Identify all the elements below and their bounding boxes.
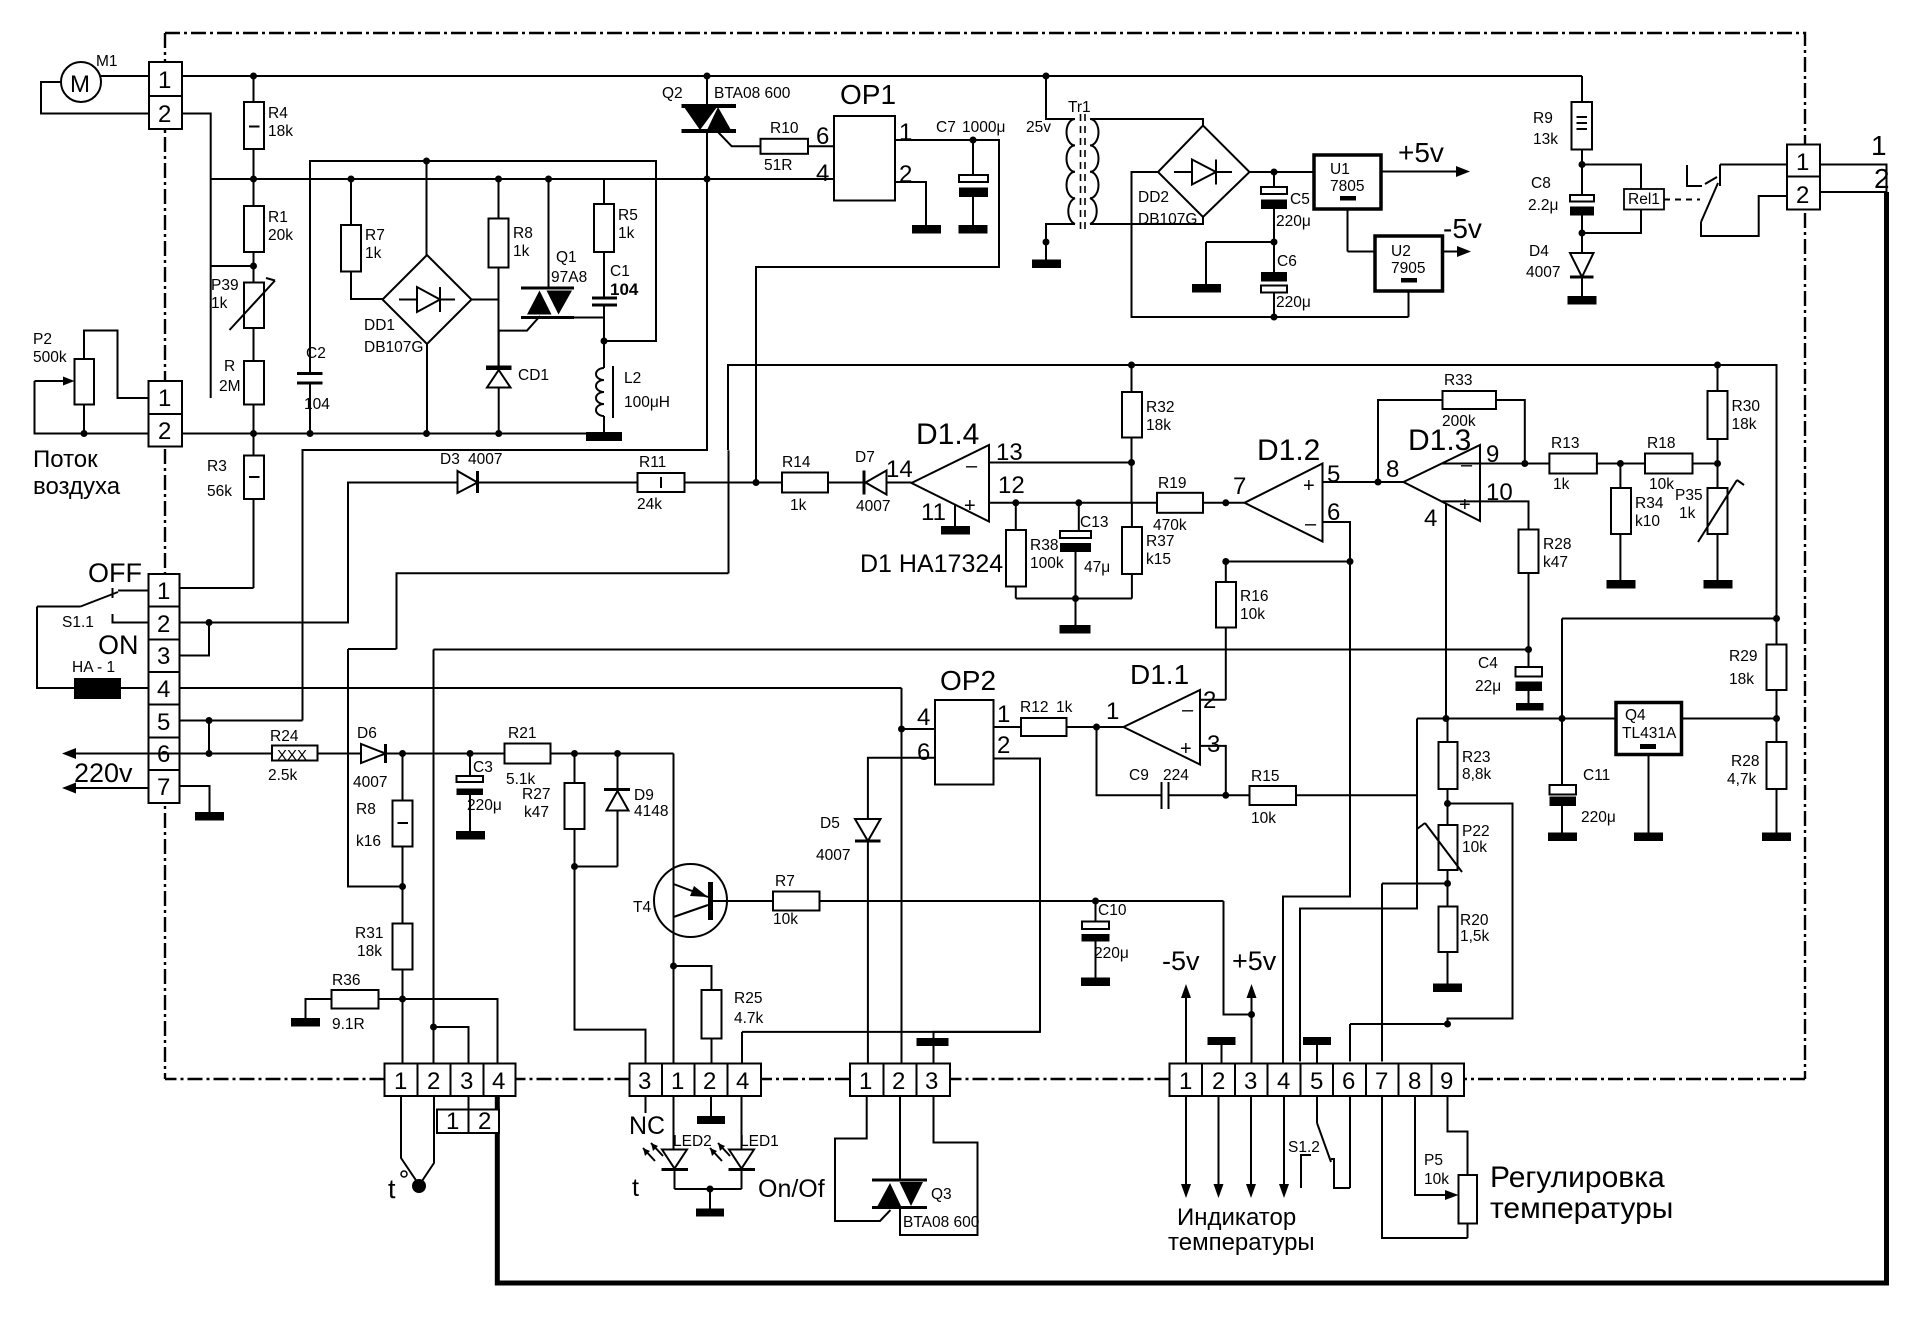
capacitor C10 — [1095, 901, 1097, 922]
wire pin2 — [180, 622, 210, 624]
svg-text:8: 8 — [1386, 456, 1399, 483]
svg-text:56k: 56k — [207, 483, 232, 500]
connector sub 1-2 — [437, 1110, 499, 1134]
svg-text:D4: D4 — [1529, 243, 1549, 260]
svg-text:–: – — [1461, 454, 1473, 476]
svg-text:1,5k: 1,5k — [1460, 928, 1490, 945]
svg-text:18k: 18k — [1729, 671, 1754, 688]
svg-text:6: 6 — [917, 739, 930, 766]
svg-text:–: – — [1305, 513, 1317, 535]
svg-text:2: 2 — [899, 161, 912, 188]
wire pin3 bridge — [180, 623, 210, 656]
svg-text:10k: 10k — [1462, 839, 1487, 856]
wire pin12 — [989, 502, 1157, 504]
svg-text:On/Of: On/Of — [758, 1175, 825, 1203]
wire OP1 pin1 — [756, 140, 999, 483]
svg-text:R11: R11 — [639, 454, 666, 471]
svg-text:OP1: OP1 — [840, 79, 896, 110]
svg-text:1: 1 — [997, 701, 1010, 728]
connector CN-M1 — [149, 62, 182, 129]
svg-text:k16: k16 — [356, 833, 381, 850]
wire y=649.5 long line — [434, 649, 1529, 651]
svg-text:1k: 1k — [1056, 699, 1073, 716]
svg-text:1000μ: 1000μ — [962, 119, 1005, 136]
svg-text:R: R — [224, 358, 235, 375]
svg-text:D3: D3 — [440, 451, 460, 468]
wire pin4 long — [180, 687, 902, 689]
svg-text:2.2μ: 2.2μ — [1528, 197, 1558, 214]
svg-text:2: 2 — [1212, 1068, 1225, 1095]
svg-text:6: 6 — [816, 123, 829, 150]
svg-text:6: 6 — [1342, 1068, 1355, 1095]
resistor R27 — [574, 754, 576, 784]
svg-text:Индикатор: Индикатор — [1177, 1204, 1296, 1231]
svg-text:R9: R9 — [1533, 110, 1553, 127]
svg-text:104: 104 — [304, 396, 330, 413]
wire P22 node to pin7 — [1382, 883, 1448, 885]
resistor R9 — [1581, 76, 1583, 102]
resistor R1 — [244, 206, 264, 252]
svg-text:25v: 25v — [1026, 119, 1051, 136]
wire OP2 pin6 / D5 — [868, 758, 935, 819]
transistor T4 — [673, 754, 675, 1064]
+5v out — [1381, 171, 1466, 173]
svg-text:M1: M1 — [96, 53, 118, 70]
thermocouple probe — [401, 1096, 419, 1184]
svg-text:1: 1 — [446, 1108, 459, 1135]
capacitor C11 — [1561, 619, 1563, 786]
svg-text:R20: R20 — [1460, 912, 1489, 929]
svg-text:R25: R25 — [734, 990, 762, 1007]
svg-text:470k: 470k — [1153, 517, 1187, 534]
svg-text:C7: C7 — [936, 119, 956, 136]
wire supply rail y=365 — [728, 365, 1777, 645]
wire R7 net to +5v node — [1224, 901, 1252, 1015]
resistor R24 — [272, 746, 318, 761]
resistor R23 — [1447, 719, 1449, 743]
connector CN-LED 3,1,2,4 — [630, 1064, 762, 1097]
svg-text:R38: R38 — [1030, 537, 1058, 554]
capacitor C5 — [1273, 172, 1275, 187]
wire OP1 pin2 to ground — [895, 182, 926, 225]
connector CN-sensor 1-4 — [385, 1064, 516, 1097]
svg-text:18k: 18k — [357, 943, 382, 960]
svg-text:C10: C10 — [1098, 902, 1127, 919]
inductor L2 — [603, 341, 605, 368]
resistor R8 k16 — [402, 754, 404, 801]
resistor R7 10k — [711, 900, 774, 902]
svg-text:4: 4 — [816, 160, 829, 187]
wire D9/R27 bottoms to sensor pin2 net — [575, 866, 618, 868]
connector CN-panel 1-9 — [1170, 1064, 1465, 1097]
svg-text:R37: R37 — [1146, 533, 1174, 550]
svg-text:8,8k: 8,8k — [1462, 766, 1492, 783]
svg-text:1k: 1k — [790, 497, 807, 514]
svg-text:C11: C11 — [1583, 767, 1610, 784]
resistor R19 — [1157, 493, 1203, 513]
svg-text:2: 2 — [158, 418, 171, 445]
heavy mains wire — [497, 192, 1886, 1283]
svg-text:BTA08 600: BTA08 600 — [903, 1214, 980, 1231]
svg-text:R32: R32 — [1146, 399, 1174, 416]
svg-text:4007: 4007 — [816, 847, 850, 864]
connector CN-Q3 1-3 — [850, 1064, 950, 1097]
wire D1.1 pin2 to R16 — [1200, 699, 1226, 701]
svg-text:T4: T4 — [633, 899, 651, 916]
resistor R5 — [603, 179, 605, 204]
wire LED commons — [675, 1188, 742, 1190]
svg-text:+: + — [1180, 738, 1192, 760]
op-amp D1.4 — [912, 445, 990, 522]
wire rail2 y=161 C2 top — [310, 161, 656, 374]
wire pin2/3 net up to D3 — [209, 483, 458, 623]
svg-text:7805: 7805 — [1330, 178, 1364, 195]
wire pin5 — [180, 720, 303, 722]
resistor R28 4,7k — [1767, 742, 1787, 789]
svg-text:20k: 20k — [268, 227, 293, 244]
svg-text:+5v: +5v — [1232, 946, 1277, 976]
diode D4 — [1570, 253, 1594, 277]
svg-text:10k: 10k — [1240, 606, 1265, 623]
svg-text:C8: C8 — [1531, 175, 1551, 192]
svg-text:2.5k: 2.5k — [268, 767, 298, 784]
svg-text:R16: R16 — [1240, 588, 1268, 605]
LED2 — [673, 1096, 675, 1150]
svg-text:-5v: -5v — [1162, 946, 1200, 976]
svg-text:D1.4: D1.4 — [916, 418, 979, 451]
ground pin11 D1.4 — [954, 505, 956, 526]
svg-text:220μ: 220μ — [467, 797, 502, 814]
svg-text:+: + — [964, 495, 976, 517]
wire R15 net down to S1.2 loop — [1300, 719, 1417, 1062]
wire R23 node to pin6 net — [1448, 804, 1513, 1025]
svg-text:2: 2 — [1874, 163, 1890, 194]
opto OP2 — [935, 700, 994, 785]
svg-text:k47: k47 — [1543, 554, 1568, 571]
wire pin7 arrow — [66, 787, 149, 789]
svg-text:1: 1 — [1179, 1068, 1192, 1095]
triac Q1 — [548, 179, 550, 288]
wire pin7 loop — [1382, 1096, 1468, 1238]
wire pin10 to R28 — [1441, 501, 1529, 529]
svg-text:D1.2: D1.2 — [1257, 434, 1320, 467]
svg-text:D9: D9 — [634, 787, 654, 804]
TL431 Q4 — [1616, 703, 1682, 755]
svg-text:ON: ON — [98, 630, 139, 660]
wire P39 branch to lower connector pin1 — [211, 265, 254, 267]
triac Q2 — [706, 76, 708, 106]
svg-text:P35: P35 — [1675, 487, 1703, 504]
resistor R8 — [498, 179, 500, 219]
resistor R 2M — [244, 361, 264, 405]
ground under L2 — [586, 432, 622, 441]
svg-text:P39: P39 — [211, 277, 239, 294]
svg-text:1: 1 — [1106, 698, 1119, 725]
svg-text:1k: 1k — [1553, 476, 1570, 493]
wire: motor to connector — [101, 75, 149, 77]
relay switch contact — [1687, 165, 1702, 186]
zener CD1 — [486, 366, 512, 371]
svg-text:R33: R33 — [1444, 372, 1472, 389]
svg-text:D1.1: D1.1 — [1130, 659, 1189, 690]
capacitor C2 — [297, 372, 323, 375]
op-amp D1.3 — [1404, 445, 1481, 521]
svg-text:1: 1 — [394, 1068, 407, 1095]
resistor R29 — [1767, 645, 1787, 691]
resistor R3 — [244, 456, 264, 500]
wire y573 net — [397, 573, 729, 649]
svg-text:воздуха: воздуха — [33, 473, 121, 500]
resistor R20 — [1439, 907, 1458, 953]
svg-text:Rel1: Rel1 — [1628, 191, 1660, 208]
svg-text:7: 7 — [1375, 1068, 1388, 1095]
svg-text:4: 4 — [1424, 505, 1437, 532]
svg-text:OFF: OFF — [88, 558, 142, 588]
wire LED1 pin4 net — [742, 1031, 1040, 1033]
resistor R36 — [332, 990, 379, 1009]
svg-text:2: 2 — [703, 1068, 716, 1095]
regulator U1 — [1314, 155, 1381, 209]
diode D6 — [361, 744, 386, 763]
op-amp D1.2 — [1245, 464, 1323, 542]
svg-text:3: 3 — [638, 1068, 651, 1095]
svg-text:R8: R8 — [356, 801, 376, 818]
connector CN-out right — [1787, 145, 1820, 210]
svg-text:1k: 1k — [1679, 505, 1696, 522]
svg-text:4148: 4148 — [634, 803, 668, 820]
svg-text:4: 4 — [736, 1068, 749, 1095]
svg-text:R30: R30 — [1732, 398, 1761, 415]
resistor R28 k47 — [1519, 530, 1539, 574]
ground above pin2 — [1208, 1037, 1236, 1045]
wire D1.1 pin3 — [1200, 746, 1226, 795]
dash-dot enclosure border — [165, 33, 1805, 1079]
svg-text:4007: 4007 — [1526, 264, 1560, 281]
svg-text:D1.3: D1.3 — [1408, 424, 1471, 457]
svg-text:L2: L2 — [624, 370, 641, 387]
svg-text:1: 1 — [158, 385, 171, 412]
svg-text:R5: R5 — [618, 207, 638, 224]
svg-text:DD2: DD2 — [1138, 189, 1169, 206]
ground C6 left — [1206, 241, 1274, 243]
svg-text:18k: 18k — [1146, 417, 1171, 434]
svg-text:2M: 2M — [219, 378, 241, 395]
svg-text:2: 2 — [892, 1068, 905, 1095]
svg-text:HA - 1: HA - 1 — [72, 659, 115, 676]
svg-text:XXX: XXX — [277, 747, 307, 764]
svg-text:R28: R28 — [1731, 753, 1759, 770]
resistor R37 — [1131, 503, 1133, 527]
svg-text:R18: R18 — [1647, 435, 1675, 452]
resistor R30 — [1717, 365, 1719, 391]
svg-text:4007: 4007 — [468, 451, 502, 468]
svg-text:DD1: DD1 — [364, 317, 395, 334]
resistor R11 — [638, 473, 685, 492]
ground above pin5 — [1303, 1037, 1331, 1045]
wire pin4 jog net (R16/pin6 node down) — [1283, 562, 1350, 1064]
svg-text:R19: R19 — [1158, 475, 1186, 492]
svg-text:1k: 1k — [513, 243, 530, 260]
svg-text:Tr1: Tr1 — [1068, 99, 1091, 116]
resistor R15 — [1250, 786, 1297, 805]
capacitor C3 — [467, 750, 474, 757]
ground above pin3 — [917, 1038, 949, 1046]
svg-text:P5: P5 — [1424, 1152, 1443, 1169]
connector CN-P2 — [149, 381, 183, 447]
svg-text:LED2: LED2 — [673, 1133, 712, 1150]
svg-text:5: 5 — [1327, 461, 1340, 488]
svg-text:1: 1 — [1871, 130, 1887, 161]
resistor R13 — [1549, 454, 1597, 474]
svg-text:10k: 10k — [773, 911, 798, 928]
svg-text:R12: R12 — [1020, 699, 1048, 716]
svg-text:R13: R13 — [1551, 435, 1579, 452]
svg-text:220μ: 220μ — [1276, 294, 1311, 311]
capacitor C6 — [1261, 272, 1287, 282]
svg-text:D6: D6 — [357, 725, 377, 742]
svg-text:2: 2 — [997, 732, 1010, 759]
LED1 — [741, 1096, 743, 1150]
bridge DD2 — [1158, 126, 1250, 218]
svg-text:DB107G: DB107G — [1138, 211, 1197, 228]
svg-text:+: + — [1459, 494, 1471, 516]
svg-text:7905: 7905 — [1391, 260, 1425, 277]
svg-text:18k: 18k — [268, 123, 293, 140]
svg-text:4: 4 — [1277, 1068, 1290, 1095]
resistor R10 — [761, 139, 809, 154]
svg-text:12: 12 — [998, 472, 1025, 499]
wire: pin2 route to rail1 — [182, 114, 211, 399]
op-amp D1.1 — [1124, 690, 1201, 765]
svg-text:51R: 51R — [764, 157, 792, 174]
svg-text:3: 3 — [157, 643, 170, 670]
svg-text:4.7k: 4.7k — [734, 1010, 764, 1027]
svg-text:C9: C9 — [1129, 767, 1149, 784]
svg-text:C4: C4 — [1478, 655, 1498, 672]
svg-text:t: t — [632, 1174, 639, 1202]
wire rail1 y=179 — [211, 178, 834, 180]
svg-text:5: 5 — [1310, 1068, 1323, 1095]
svg-text:NC: NC — [629, 1112, 665, 1140]
svg-text:1k: 1k — [211, 295, 228, 312]
wire R4 — [253, 76, 255, 102]
svg-text:7: 7 — [1233, 473, 1246, 500]
svg-text:C6: C6 — [1277, 253, 1297, 270]
capacitor C13 — [1078, 503, 1080, 531]
ground pin2 LED conn — [710, 1096, 712, 1116]
opto OP1 — [834, 116, 895, 201]
svg-text:4007: 4007 — [353, 774, 387, 791]
svg-text:C13: C13 — [1080, 514, 1108, 531]
svg-text:U1: U1 — [1330, 161, 1350, 178]
svg-text:R21: R21 — [508, 725, 536, 742]
svg-text:R23: R23 — [1462, 749, 1490, 766]
svg-text:C3: C3 — [473, 759, 493, 776]
resistor R38 — [1015, 503, 1017, 530]
svg-text:9: 9 — [1440, 1068, 1453, 1095]
triac Q3 — [835, 1096, 891, 1221]
svg-text:47μ: 47μ — [1084, 559, 1110, 576]
svg-text:2: 2 — [1796, 182, 1809, 209]
svg-text:4: 4 — [157, 676, 170, 703]
svg-text:R7: R7 — [775, 873, 795, 890]
svg-text:22μ: 22μ — [1475, 678, 1501, 695]
svg-text:18k: 18k — [1732, 416, 1757, 433]
svg-text:4: 4 — [917, 704, 930, 731]
svg-text:R34: R34 — [1635, 495, 1664, 512]
wire pin13 — [989, 462, 1132, 464]
svg-text:4: 4 — [492, 1068, 505, 1095]
resistor R18 — [1645, 454, 1693, 474]
svg-text:1: 1 — [899, 119, 912, 146]
svg-text:R24: R24 — [270, 728, 299, 745]
wire pin6 net — [1323, 522, 1351, 562]
svg-text:10k: 10k — [1649, 476, 1674, 493]
svg-text:R4: R4 — [268, 105, 288, 122]
svg-text:10k: 10k — [1424, 1171, 1449, 1188]
svg-text:TL431A: TL431A — [1622, 725, 1677, 742]
capacitor C9 loop — [1097, 727, 1162, 795]
svg-text:24k: 24k — [637, 496, 662, 513]
resistor R14 — [782, 473, 828, 493]
svg-text:1k: 1k — [618, 225, 635, 242]
svg-text:–: – — [966, 455, 978, 477]
diode D9 — [617, 754, 619, 790]
wire OP2 pin2 — [934, 759, 1041, 1039]
svg-text:2: 2 — [158, 101, 171, 128]
svg-text:M: M — [70, 71, 90, 98]
resistor R25 — [670, 963, 677, 970]
svg-text:Q3: Q3 — [931, 1186, 952, 1203]
wire pin6 — [149, 753, 273, 755]
svg-text:1: 1 — [859, 1068, 872, 1095]
svg-text:7: 7 — [157, 774, 170, 801]
svg-text:3: 3 — [925, 1068, 938, 1095]
svg-text:104: 104 — [610, 280, 639, 299]
svg-text:1: 1 — [157, 578, 170, 605]
svg-text:D1 HA17324: D1 HA17324 — [860, 550, 1003, 578]
resistor R33 loop — [1378, 400, 1443, 482]
svg-text:Q1: Q1 — [556, 249, 577, 266]
svg-text:2: 2 — [478, 1108, 491, 1135]
pot P35 — [1717, 464, 1719, 489]
svg-text:1: 1 — [158, 67, 171, 94]
capacitor C8 — [1570, 195, 1594, 202]
svg-text:k10: k10 — [1635, 513, 1660, 530]
svg-text:R8: R8 — [513, 225, 533, 242]
svg-text:3: 3 — [460, 1068, 473, 1095]
svg-text:S1.2: S1.2 — [1288, 1139, 1320, 1156]
svg-text:U2: U2 — [1391, 243, 1411, 260]
svg-text:224: 224 — [1163, 767, 1189, 784]
svg-text:R15: R15 — [1251, 768, 1279, 785]
svg-text:OP2: OP2 — [940, 665, 996, 696]
pot P22 — [1439, 825, 1458, 870]
NC stub — [645, 1096, 647, 1113]
regulator U2 — [1375, 236, 1443, 291]
svg-text:C1: C1 — [610, 263, 630, 280]
svg-text:+: + — [1303, 475, 1315, 497]
svg-text:R7: R7 — [365, 227, 385, 244]
svg-text:3: 3 — [1207, 731, 1220, 758]
wire pin1 from R3 — [180, 587, 254, 589]
svg-text:Поток: Поток — [33, 446, 98, 473]
svg-text:+5v: +5v — [1398, 137, 1444, 168]
svg-text:Q2: Q2 — [662, 85, 683, 102]
capacitor C4 — [1516, 667, 1543, 677]
svg-text:D7: D7 — [855, 449, 875, 466]
svg-text:k15: k15 — [1146, 551, 1171, 568]
